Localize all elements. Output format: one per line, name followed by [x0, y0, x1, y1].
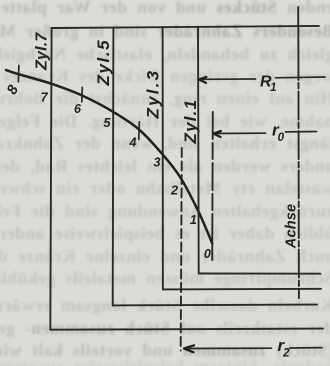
- bleed-through text line 3: [0, 44, 330, 65]
- cylinder line Zyl.5: [112, 27, 115, 305]
- bleed-through text line 7: [0, 133, 330, 154]
- bleed-through text line 17: [0, 356, 330, 366]
- svg-text:6: 6: [74, 102, 82, 116]
- tick mark point 6: [81, 87, 84, 102]
- svg-text:Zyl.1: Zyl.1: [181, 99, 200, 145]
- arrowhead R1: [199, 77, 207, 83]
- svg-text:Zyl.3: Zyl.3: [144, 69, 163, 120]
- bottom line Zyl.7: [50, 329, 323, 330]
- extension line r2 (dashed): [181, 148, 182, 351]
- svg-text:4: 4: [129, 136, 137, 150]
- bottom line Zyl.5: [113, 304, 317, 307]
- tick mark point 8: [17, 66, 20, 82]
- svg-text:1: 1: [190, 213, 197, 227]
- dimension line R1 (right shaft): [276, 76, 326, 79]
- svg-text:8: 8: [4, 82, 22, 97]
- bleed-through text line 13: [0, 268, 330, 289]
- dimension line R1 (left shaft): [199, 78, 256, 80]
- cylinder line Zyl.7: [50, 28, 51, 330]
- svg-text:5: 5: [104, 116, 112, 130]
- bottom line Zyl.3: [163, 288, 321, 291]
- svg-text:3: 3: [154, 156, 161, 170]
- axis line Achse (dash-dot lower part): [297, 52, 300, 298]
- bleed-through text line 8: [0, 156, 330, 177]
- bleed-through text line 9: [0, 178, 330, 199]
- top boundary line: [52, 26, 319, 28]
- svg-text:Achse: Achse: [284, 204, 300, 250]
- bleed-through text line 2: [0, 21, 330, 42]
- arrowhead r0: [213, 131, 221, 137]
- svg-text:R1: R1: [260, 73, 276, 94]
- cylinder line Zyl.3: [162, 27, 164, 289]
- main curve through points 8..0: [6, 70, 212, 244]
- bleed-through text line 15: [0, 318, 330, 339]
- bleed-through text line 11: [0, 223, 330, 244]
- bleed-through text line 1: [0, 0, 330, 18]
- dimension line r2 (right shaft): [290, 347, 322, 349]
- svg-text:Zyl.5: Zyl.5: [94, 39, 113, 87]
- svg-text:r0: r0: [272, 121, 285, 145]
- dimension line r0 (left shaft): [213, 132, 265, 134]
- cylinder line Zyl.1: [197, 27, 200, 274]
- svg-text:r2: r2: [278, 336, 291, 360]
- dimension line r0 (right shaft): [286, 131, 317, 133]
- svg-text:2: 2: [170, 184, 178, 198]
- bleed-through text line 5: [0, 88, 330, 109]
- extension line r0 (dashed): [211, 112, 214, 260]
- arrowhead r2: [184, 345, 194, 352]
- bleed-through text line 6: [0, 111, 330, 132]
- bleed-through text line 10: [0, 201, 330, 222]
- bleed-through text line 12: [0, 246, 330, 267]
- bottom line Zyl.1: [199, 273, 321, 275]
- svg-text:Zyl.7: Zyl.7: [34, 32, 51, 71]
- bleed-through text line 4: [0, 66, 330, 87]
- svg-text:7: 7: [41, 91, 49, 105]
- axis line Achse (solid upper part): [297, 7, 299, 52]
- bleed-through text line 16: [0, 340, 330, 361]
- bleed-through text line 14: [0, 295, 330, 316]
- tick mark point 4: [138, 122, 141, 140]
- dimension line r2 (left shaft): [184, 347, 271, 349]
- svg-text:0: 0: [204, 247, 211, 261]
